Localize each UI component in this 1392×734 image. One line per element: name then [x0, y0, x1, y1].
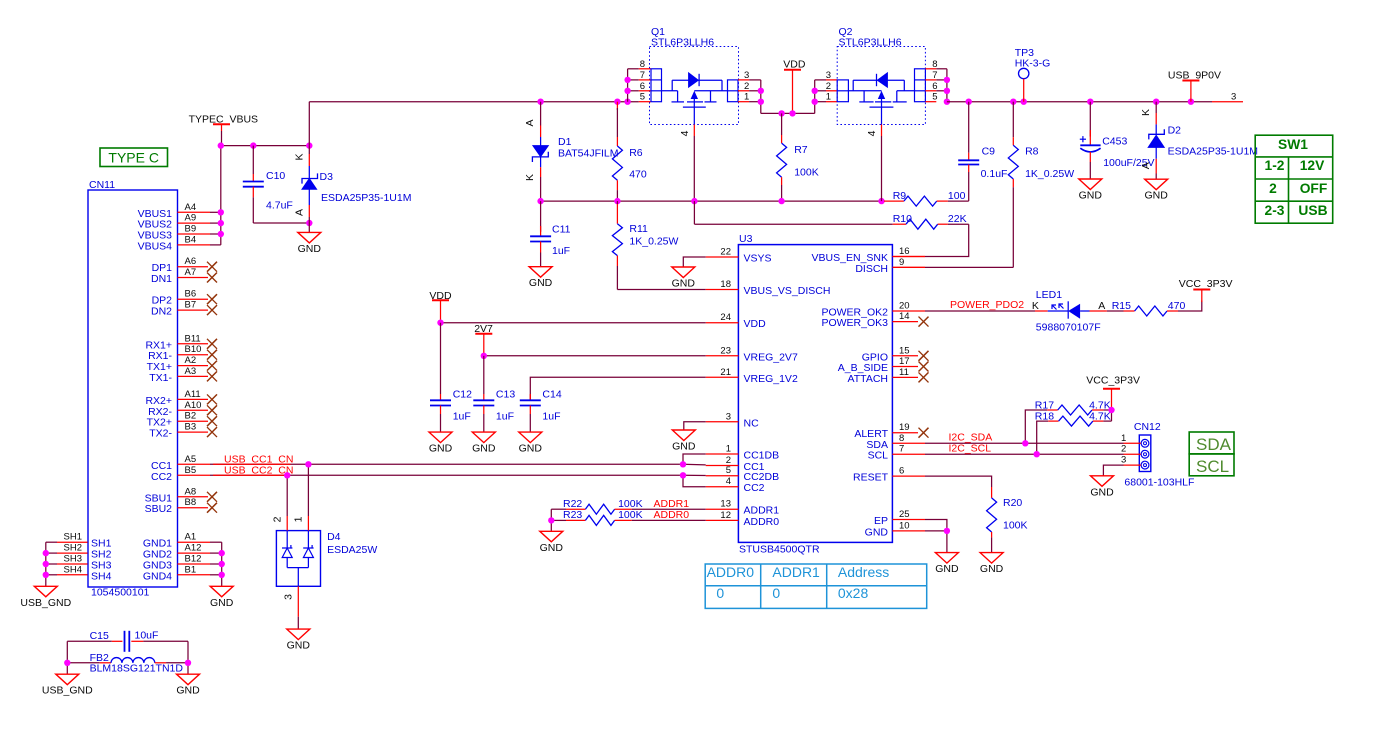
svg-text:1: 1: [744, 92, 749, 103]
junction VBUS A4: [218, 209, 224, 215]
svg-text:SH1: SH1: [64, 532, 82, 543]
ground GND below D4: [287, 629, 311, 652]
power port TYPEC_VBUS: [189, 114, 258, 146]
svg-text:TYPE C: TYPE C: [108, 150, 159, 166]
svg-text:3: 3: [826, 70, 831, 81]
CN11 pin A5 CC1 stub: [178, 463, 211, 465]
wire drain node under Q1 Q2: [694, 200, 881, 202]
no-connect X on A2: [207, 361, 217, 371]
svg-text:A1: A1: [185, 532, 197, 543]
ground GND below EP: [935, 553, 959, 576]
U3 pin 4 CC2 stub: [706, 486, 739, 488]
svg-text:B3: B3: [185, 422, 197, 433]
U3 pin 24 VDD stub: [706, 322, 739, 324]
no-connect X on A3: [207, 371, 217, 381]
CN11 shield pin SH1 stub: [57, 541, 88, 543]
junction SH2: [43, 550, 49, 556]
junction Q2 pin2 left: [812, 88, 818, 94]
svg-text:C13: C13: [496, 389, 515, 401]
junction R7 bottom: [778, 198, 784, 204]
junction R18 on SCL: [1034, 451, 1040, 457]
wire I2C_SCL pin7: [925, 453, 1124, 455]
CN11 pin B11 RX1+ stub (no connect): [178, 343, 209, 345]
junction FB2 right: [185, 660, 191, 666]
diode D4 ESD array body: [276, 531, 320, 587]
svg-text:A11: A11: [185, 389, 201, 400]
svg-text:I2C_SCL: I2C_SCL: [949, 443, 992, 455]
svg-text:1uF: 1uF: [552, 245, 570, 257]
svg-text:14: 14: [899, 311, 910, 322]
wire C15 FB2 left join: [66, 641, 68, 674]
svg-text:22K: 22K: [948, 213, 967, 225]
CN12 pin3 wire to GND: [1103, 465, 1140, 476]
svg-text:CC1DB: CC1DB: [744, 450, 780, 462]
svg-text:SCL: SCL: [868, 450, 889, 462]
svg-text:SH4: SH4: [64, 564, 82, 575]
svg-text:POWER_OK3: POWER_OK3: [821, 317, 888, 329]
ground GND below CN12: [1090, 476, 1114, 499]
svg-text:USB: USB: [1298, 203, 1327, 218]
wire D1/R6 bottom node: [541, 200, 695, 202]
svg-text:R10: R10: [893, 213, 912, 225]
Q2 pin 4 lead: [881, 125, 883, 202]
svg-text:ESDA25W: ESDA25W: [327, 544, 377, 556]
svg-text:A12: A12: [185, 543, 202, 554]
wire 2V7 to pin23 VREG_2V7: [484, 355, 706, 357]
svg-text:12V: 12V: [1300, 158, 1325, 173]
no-connect X on B7: [207, 305, 217, 315]
U3 pin 25 EP stub: [892, 519, 925, 521]
capacitor C9: [958, 102, 979, 201]
svg-text:5: 5: [640, 92, 645, 103]
CN11 pin B2 TX2+ stub (no connect): [178, 420, 209, 422]
svg-text:1K_0.25W: 1K_0.25W: [1025, 168, 1074, 180]
D4 pin 3 wire to GND: [297, 586, 299, 629]
no-connect X on B2: [207, 416, 217, 426]
svg-text:BLM18SG121TN1D: BLM18SG121TN1D: [90, 663, 184, 675]
resistor R18: [1037, 416, 1112, 454]
svg-text:HK-3-G: HK-3-G: [1015, 57, 1051, 69]
ground GND right of FB2: [176, 674, 200, 697]
CN11 pin A2 TX1+ stub (no connect): [178, 365, 209, 367]
power port VDD left: [429, 290, 452, 323]
svg-text:1: 1: [1121, 433, 1126, 444]
svg-text:8: 8: [899, 433, 904, 444]
svg-text:ADDR1: ADDR1: [744, 505, 780, 517]
wire shield bus to USB_GND: [45, 542, 47, 586]
svg-text:B1: B1: [185, 564, 197, 575]
power port 2V7: [474, 323, 493, 356]
U3 pin 1 CC1DB stub: [706, 453, 739, 455]
svg-text:D1: D1: [558, 136, 572, 148]
D4 internal diodes: [282, 531, 314, 587]
svg-text:3: 3: [744, 70, 749, 81]
Q2 left pin box (pins 3 2 1): [837, 80, 848, 102]
svg-text:GND: GND: [519, 443, 543, 455]
svg-text:470: 470: [629, 169, 647, 181]
svg-text:1: 1: [293, 516, 305, 522]
Q1 pin 4 lead: [693, 125, 695, 202]
LED LED1: [1035, 301, 1107, 318]
junction GND3: [219, 561, 225, 567]
svg-text:15: 15: [899, 345, 910, 356]
no-connect X on A10: [207, 405, 217, 415]
junction Q1 pin bracket: [624, 99, 630, 105]
U3 pin 18 VBUS_VS_DISCH stub: [706, 289, 739, 291]
svg-text:13: 13: [720, 499, 731, 510]
junction Q1 pin6: [624, 88, 630, 94]
no-connect X on B3: [207, 427, 217, 437]
wire CC2 to U3 pin5 CC2DB: [683, 474, 706, 476]
svg-text:7: 7: [932, 70, 937, 81]
ground GND below D2: [1145, 179, 1169, 202]
svg-text:USB_GND: USB_GND: [42, 685, 93, 697]
svg-text:GND: GND: [210, 597, 234, 609]
svg-text:1054500101: 1054500101: [91, 586, 150, 598]
svg-text:2: 2: [744, 81, 749, 92]
wire TYPEC_VBUS horizontal: [221, 145, 309, 147]
wire CC1 to U3 pin2: [683, 463, 706, 466]
junction C453 top: [1087, 99, 1093, 105]
junction TP3: [1021, 99, 1027, 105]
svg-text:A: A: [1098, 300, 1105, 312]
svg-text:OFF: OFF: [1300, 181, 1328, 196]
Q1 right pin wires: [738, 80, 761, 114]
U3 pin 19 ALERT stub: [892, 432, 918, 434]
CN11 pin A3 TX1- stub (no connect): [178, 375, 209, 377]
CN11 shield pin SH3 stub: [57, 563, 88, 565]
ground GND below C13: [472, 432, 496, 455]
junction D1 bottom: [537, 198, 543, 204]
svg-text:STL6P3LLH6: STL6P3LLH6: [839, 37, 902, 49]
junction Q1 pin7: [624, 77, 630, 83]
svg-text:R11: R11: [629, 223, 648, 235]
svg-text:VREG_1V2: VREG_1V2: [744, 373, 798, 385]
svg-text:K: K: [294, 153, 306, 160]
svg-text:A5: A5: [185, 454, 197, 465]
ground GND below D3: [298, 223, 322, 255]
svg-text:VCC_3P3V: VCC_3P3V: [1086, 374, 1140, 386]
CN12 pin1 red stub: [1124, 442, 1141, 444]
ground USB_GND below C15: [42, 674, 93, 697]
plus sign of C453: [1080, 136, 1086, 142]
CN12 pad pin 3: [1141, 461, 1149, 469]
svg-text:C15: C15: [90, 630, 109, 642]
svg-text:C11: C11: [552, 224, 571, 236]
CN11 pin B12 GND3 stub: [178, 563, 211, 565]
junction Q2 pin4 node: [878, 198, 884, 204]
svg-text:12: 12: [720, 510, 731, 521]
svg-text:ADDR0: ADDR0: [744, 516, 780, 528]
ground GND for NC pin3: [672, 422, 706, 453]
wire C14 to pin21 VREG_1V2: [530, 377, 705, 400]
junction R6 bottom: [614, 198, 620, 204]
CN11 shield pin SH4 stub: [57, 574, 88, 576]
Q1 left pin box (pins 8 7 6 5): [651, 69, 662, 102]
junction USB_9P0V tick: [1188, 99, 1194, 105]
ground GND for VSYS pin22: [672, 257, 706, 290]
diode D2 (TVS): [1148, 102, 1164, 180]
wire ADDR pulldown to GND: [550, 509, 552, 531]
svg-text:GND: GND: [429, 443, 453, 455]
capacitor C13: [473, 356, 494, 432]
resistor R7: [777, 113, 787, 201]
junction EP GND node: [944, 528, 950, 534]
svg-text:22: 22: [720, 247, 731, 258]
ground GND below C14: [519, 432, 543, 455]
svg-text:R8: R8: [1025, 146, 1039, 158]
svg-text:2-3: 2-3: [1265, 203, 1285, 218]
svg-text:GND: GND: [1090, 486, 1114, 498]
svg-text:B11: B11: [185, 333, 201, 344]
svg-text:3: 3: [283, 594, 295, 600]
transistor Q2 dashed outline: [837, 47, 925, 125]
table I2C address: [705, 564, 927, 608]
svg-text:A10: A10: [185, 400, 202, 411]
junction R23 left: [548, 517, 554, 523]
svg-text:3: 3: [1231, 91, 1236, 102]
CN11 pin B3 TX2- stub (no connect): [178, 431, 209, 433]
svg-text:B7: B7: [185, 300, 197, 311]
svg-text:11: 11: [899, 367, 909, 378]
U3 pin 6 RESET stub: [892, 475, 925, 477]
junction Q2 pin5 right: [944, 99, 950, 105]
junction Q1 pin4 node: [691, 198, 697, 204]
CN12 pad pin 1: [1141, 439, 1149, 447]
svg-text:10: 10: [899, 520, 910, 531]
junction SH3: [43, 561, 49, 567]
svg-text:C9: C9: [982, 146, 996, 158]
svg-text:TX2-: TX2-: [149, 428, 172, 440]
svg-text:2: 2: [1269, 181, 1277, 196]
svg-text:A: A: [294, 209, 306, 216]
CN11 pin A10 RX2- stub (no connect): [178, 409, 209, 411]
ground GND below C11: [529, 267, 553, 290]
junction VDD tick: [789, 110, 795, 116]
U3 pin 8 SDA stub: [892, 442, 925, 444]
Q2 left pin wires: [815, 80, 838, 114]
junction D3 top tap: [306, 142, 312, 148]
svg-text:D3: D3: [320, 171, 334, 183]
svg-text:EP: EP: [874, 515, 888, 527]
junction C9 top: [966, 99, 972, 105]
Q2 right pin wires: [925, 69, 947, 102]
ground GND below C453: [1079, 179, 1103, 202]
capacitor C453 (polarized): [1080, 102, 1100, 179]
junction C10 top tap: [250, 142, 256, 148]
wire GND pins bus: [221, 542, 223, 586]
svg-text:TX1-: TX1-: [149, 372, 172, 384]
wire net USB_CC1_CN: [210, 463, 683, 465]
svg-text:GND: GND: [287, 640, 311, 652]
junction Q2 pin1 left: [812, 99, 818, 105]
svg-text:9: 9: [899, 257, 904, 268]
svg-text:B2: B2: [185, 411, 197, 422]
wire I2C_SDA pin8: [925, 442, 1124, 444]
CN12 pad pin 2: [1141, 450, 1149, 458]
junction CC2 node: [680, 472, 686, 478]
svg-text:A3: A3: [185, 366, 197, 377]
junction D1 top: [537, 99, 543, 105]
junction FB2 left: [64, 660, 70, 666]
svg-text:A7: A7: [185, 267, 197, 278]
svg-text:C453: C453: [1102, 135, 1127, 147]
svg-text:GND: GND: [1079, 190, 1103, 202]
power port VCC_3P3V for LED: [1179, 278, 1233, 302]
no-connect X on U3 pin 19: [919, 428, 929, 438]
svg-text:6: 6: [899, 466, 904, 477]
svg-text:6: 6: [640, 81, 645, 92]
svg-text:DN1: DN1: [151, 273, 172, 285]
CN11 pin B10 RX1- stub (no connect): [178, 354, 209, 356]
svg-text:R7: R7: [794, 144, 808, 156]
svg-text:21: 21: [720, 367, 731, 378]
svg-text:CC2: CC2: [151, 471, 172, 483]
svg-text:STL6P3LLH6: STL6P3LLH6: [651, 37, 714, 49]
svg-text:A6: A6: [185, 256, 197, 267]
wire C15 FB2 right join: [187, 641, 189, 674]
capacitor C12: [430, 323, 451, 432]
wire EP pin25 to GND pin10: [925, 520, 947, 553]
svg-text:U3: U3: [739, 233, 753, 245]
no-connect X on A7: [207, 273, 217, 283]
U3 pin 23 VREG_2V7 stub: [706, 355, 739, 357]
U3 pin 15 GPIO stub: [892, 355, 918, 357]
svg-text:VBUS_VS_DISCH: VBUS_VS_DISCH: [744, 285, 831, 297]
svg-text:0: 0: [716, 585, 724, 601]
junction D3 anode node: [306, 220, 312, 226]
svg-text:18: 18: [720, 279, 731, 290]
resistor R11: [612, 201, 622, 289]
Q1 P-MOSFET symbol: [662, 72, 728, 125]
svg-text:C12: C12: [453, 389, 472, 401]
svg-text:100K: 100K: [618, 509, 643, 521]
svg-text:GND: GND: [865, 526, 889, 538]
wire R11 to VBUS_VS_DISCH pin 18: [617, 289, 705, 291]
svg-text:4: 4: [726, 476, 731, 487]
no-connect X on A6: [207, 262, 217, 272]
svg-text:STUSB4500QTR: STUSB4500QTR: [739, 544, 820, 556]
svg-text:D4: D4: [327, 531, 341, 543]
junction Q2 pin6 right: [944, 88, 950, 94]
U3 pin 11 ATTACH stub: [892, 376, 918, 378]
wire DISCH stub pin9: [892, 266, 925, 268]
svg-text:1uF: 1uF: [542, 411, 560, 423]
svg-text:VCC_3P3V: VCC_3P3V: [1179, 278, 1233, 290]
wire VBUS riser to top bus: [308, 102, 310, 146]
svg-text:100K: 100K: [794, 167, 819, 179]
green box TYPE C: [100, 148, 168, 167]
wire CC1DB pin1 drop: [683, 454, 706, 464]
U3 pin 21 VREG_1V2 stub: [706, 376, 739, 378]
svg-text:R15: R15: [1112, 300, 1131, 312]
svg-text:GND: GND: [672, 278, 696, 290]
resistor R15: [1107, 301, 1202, 317]
IC U3 body: [738, 245, 892, 543]
svg-text:ATTACH: ATTACH: [848, 373, 888, 385]
svg-text:A: A: [524, 119, 536, 126]
svg-text:BAT54JFILM: BAT54JFILM: [558, 148, 619, 160]
wire TYPEC_VBUS vertical to VBUS pins: [220, 146, 222, 245]
U3 pin 14 POWER_OK3 stub: [892, 321, 918, 323]
svg-text:0.1uF: 0.1uF: [981, 168, 1008, 180]
svg-text:R6: R6: [629, 147, 643, 159]
CN11 pin B9 VBUS3 stub: [178, 233, 211, 235]
svg-text:SH3: SH3: [64, 554, 82, 565]
svg-text:R23: R23: [563, 509, 582, 521]
test point TP3: [1019, 68, 1029, 101]
svg-text:A2: A2: [185, 355, 197, 366]
U3 pin 7 SCL stub: [892, 453, 925, 455]
Q1 left pin group wires: [628, 69, 651, 102]
CN11 pin B8 SBU2 stub (no connect): [178, 507, 209, 509]
svg-text:470: 470: [1168, 300, 1186, 312]
svg-text:7: 7: [640, 70, 645, 81]
junction VBUS B9: [218, 231, 224, 237]
wire POWER_OK2 pin20 to LED1: [925, 310, 1035, 312]
resistor R10: [893, 219, 969, 229]
U3 pin 9 DISCH stub: [892, 266, 925, 268]
junction GND2: [219, 550, 225, 556]
svg-text:B6: B6: [185, 289, 197, 300]
capacitor C15: [67, 631, 188, 652]
resistor R23: [551, 515, 705, 525]
Q2 right pin box (pins 8 7 6 5): [915, 69, 926, 102]
resistor R20: [987, 487, 997, 553]
svg-text:RESET: RESET: [853, 472, 889, 484]
svg-text:1-2: 1-2: [1265, 158, 1285, 173]
junction D4 pin2 on CC2: [284, 472, 290, 478]
svg-text:R9: R9: [893, 190, 907, 202]
svg-text:GND: GND: [672, 441, 696, 453]
svg-text:10uF: 10uF: [135, 630, 159, 642]
svg-text:GND: GND: [529, 277, 553, 289]
U3 pin 5 CC2DB stub: [706, 475, 739, 477]
green box SCL: [1189, 454, 1234, 476]
svg-text:2: 2: [826, 81, 831, 92]
svg-text:3: 3: [726, 411, 731, 422]
svg-text:8: 8: [640, 59, 645, 70]
svg-text:25: 25: [899, 509, 910, 520]
svg-text:CN12: CN12: [1134, 421, 1161, 433]
junction R17 right: [1108, 407, 1114, 413]
svg-text:ADDR0: ADDR0: [654, 509, 690, 521]
svg-text:DISCH: DISCH: [855, 263, 888, 275]
junction R17 on SDA: [1022, 440, 1028, 446]
junction VDD C12: [437, 320, 443, 326]
svg-text:4: 4: [866, 130, 878, 136]
svg-text:R20: R20: [1003, 497, 1022, 509]
no-connect X on B8: [207, 503, 217, 513]
svg-text:A: A: [1140, 162, 1152, 169]
junction SH4: [43, 572, 49, 578]
CN11 pin B1 GND4 stub: [178, 574, 211, 576]
power port VCC_3P3V for pullups: [1086, 374, 1140, 388]
capacitor C11: [530, 201, 551, 267]
svg-text:CN11: CN11: [89, 179, 115, 191]
wire RESET pin6 to R20: [925, 476, 992, 487]
svg-text:100: 100: [948, 190, 966, 202]
no-connect X on U3 pin 11: [919, 372, 929, 382]
svg-text:0x28: 0x28: [838, 585, 869, 601]
svg-text:NC: NC: [744, 417, 760, 429]
svg-text:7: 7: [899, 444, 904, 455]
svg-text:VSYS: VSYS: [744, 253, 772, 265]
U3 pin 3 NC stub: [706, 421, 739, 423]
svg-text:ESDA25P35-1U1M: ESDA25P35-1U1M: [321, 192, 411, 204]
ground USB_GND shield: [20, 586, 71, 609]
CN11 pin B7 DN2 stub (no connect): [178, 309, 209, 311]
